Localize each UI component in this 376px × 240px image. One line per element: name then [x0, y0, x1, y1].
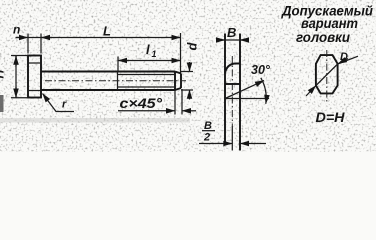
svg-text:r: r [62, 99, 67, 111]
svg-text:d: d [185, 42, 200, 51]
svg-text:l: l [146, 42, 150, 57]
svg-text:L: L [103, 24, 111, 39]
svg-text:D: D [340, 51, 348, 63]
svg-text:2: 2 [203, 132, 210, 144]
svg-text:c×45°: c×45° [120, 95, 163, 111]
svg-text:вариант: вариант [301, 16, 358, 31]
svg-text:n: n [13, 23, 20, 37]
svg-text:D=H: D=H [316, 110, 345, 125]
svg-text:1: 1 [152, 49, 157, 59]
svg-text:H: H [0, 70, 7, 79]
svg-text:B: B [227, 25, 236, 40]
svg-text:головки: головки [296, 30, 351, 45]
svg-text:30°: 30° [251, 63, 271, 77]
